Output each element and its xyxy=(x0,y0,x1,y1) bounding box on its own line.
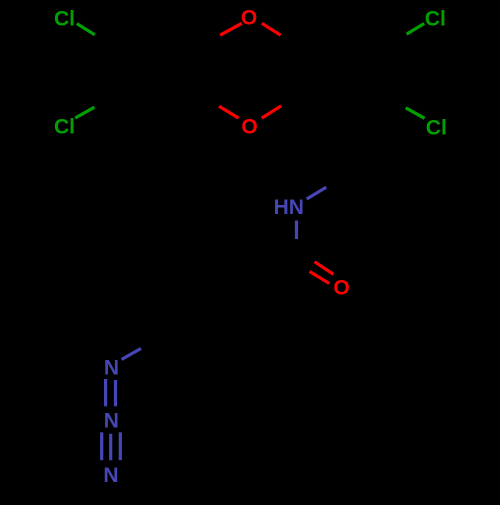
svg-text:N: N xyxy=(104,410,119,433)
wire O-C bond (top O, right) xyxy=(262,23,281,35)
svg-text:HN: HN xyxy=(274,196,304,219)
svg-text:Cl: Cl xyxy=(425,8,446,31)
wire O-C bond (bottom O, left) xyxy=(219,106,239,118)
wire N-CH2 bond xyxy=(307,187,327,199)
svg-text:O: O xyxy=(241,116,257,139)
wire N1=N2 double bond line 2 xyxy=(114,380,117,406)
svg-text:O: O xyxy=(241,7,257,30)
wire C-N1 bond xyxy=(122,349,142,360)
wire N2#N3 triple bond line 2 xyxy=(109,434,112,460)
wire C-Cl bond (top-right) xyxy=(407,24,425,35)
wire N-C(=O) bond xyxy=(295,221,298,240)
wire N2#N3 triple bond line 1 xyxy=(100,432,103,460)
wire C-Cl bond (mid-left) xyxy=(75,107,94,118)
svg-text:Cl: Cl xyxy=(426,117,447,140)
wire N1=N2 double bond line 1 xyxy=(104,379,107,406)
svg-text:Cl: Cl xyxy=(54,116,75,139)
svg-text:O: O xyxy=(333,277,349,300)
wire O-C bond (top O, left) xyxy=(220,23,242,35)
wire C-Cl bond (top-left) xyxy=(77,24,95,35)
svg-text:N: N xyxy=(103,464,118,487)
svg-text:N: N xyxy=(104,357,119,380)
wire C-Cl bond (mid-right) xyxy=(406,108,425,119)
wire O-C bond (bottom O, right) xyxy=(262,106,282,118)
svg-text:Cl: Cl xyxy=(54,8,75,31)
wire C=O double bond line 2 xyxy=(310,272,330,284)
wire C=O double bond line 1 xyxy=(315,262,334,275)
wire N2#N3 triple bond line 3 xyxy=(119,432,122,460)
